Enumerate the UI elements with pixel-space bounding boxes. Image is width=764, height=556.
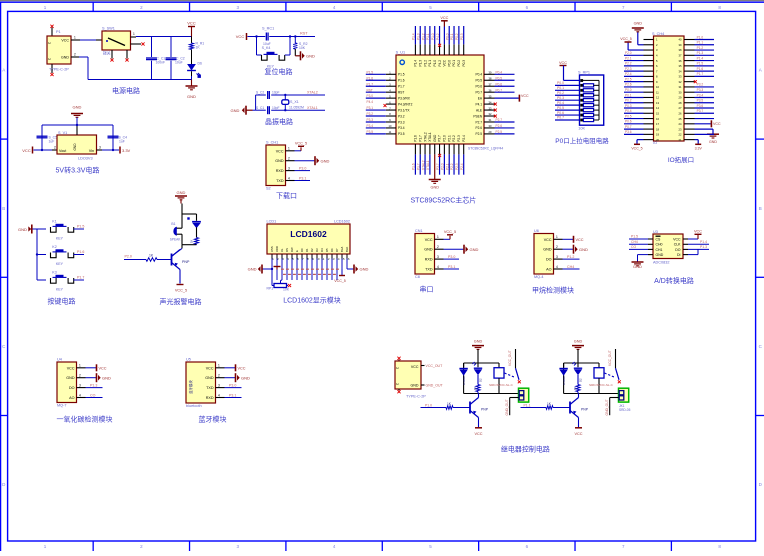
svg-text:按键电路: 按键电路 — [48, 297, 76, 306]
svg-text:XTAL2: XTAL2 — [421, 160, 425, 170]
svg-text:P1.1: P1.1 — [428, 60, 432, 67]
svg-text:RW: RW — [290, 247, 294, 252]
svg-text:P3.4: P3.4 — [367, 124, 374, 128]
svg-text:XTAL1: XTAL1 — [307, 106, 318, 110]
svg-text:P2.6: P2.6 — [496, 124, 503, 128]
svg-text:VCC: VCC — [574, 432, 582, 436]
svg-text:P3.7: P3.7 — [697, 109, 704, 113]
svg-text:拨关: 拨关 — [103, 51, 111, 56]
svg-text:继电器控制电路: 继电器控制电路 — [501, 445, 550, 454]
svg-text:P4.4: P4.4 — [367, 100, 374, 104]
svg-text:10K: 10K — [283, 288, 290, 292]
svg-text:1N4007: 1N4007 — [462, 375, 466, 385]
svg-text:P3.0: P3.0 — [299, 166, 306, 170]
svg-text:1: 1 — [556, 235, 558, 239]
svg-text:P1.4: P1.4 — [697, 56, 704, 60]
svg-text:RXD: RXD — [276, 169, 284, 173]
svg-text:S_CH4: S_CH4 — [652, 32, 664, 36]
svg-text:P1.7: P1.7 — [418, 135, 422, 142]
svg-text:VCC_OUT: VCC_OUT — [608, 350, 612, 366]
svg-text:P4.3/INT2: P4.3/INT2 — [398, 102, 413, 106]
svg-text:P0.3: P0.3 — [625, 104, 632, 108]
svg-text:33: 33 — [679, 75, 682, 79]
svg-text:100nF: 100nF — [156, 61, 166, 65]
svg-text:一氧化碳检测模块: 一氧化碳检测模块 — [57, 415, 113, 424]
svg-text:P3.3: P3.3 — [398, 120, 405, 124]
svg-text:GND: GND — [474, 339, 483, 343]
svg-text:VCC_5: VCC_5 — [334, 279, 346, 283]
svg-text:1: 1 — [437, 235, 439, 239]
svg-text:VCC: VCC — [474, 432, 482, 436]
svg-text:14: 14 — [656, 106, 659, 110]
svg-text:P4.1: P4.1 — [475, 102, 482, 106]
svg-text:3: 3 — [288, 166, 290, 170]
svg-text:1N4007: 1N4007 — [562, 375, 566, 385]
svg-text:S_SW1: S_SW1 — [102, 27, 115, 31]
svg-text:P1.2: P1.2 — [421, 33, 425, 40]
svg-text:1K: 1K — [573, 386, 577, 390]
svg-text:U4: U4 — [57, 358, 62, 362]
svg-text:P2.4: P2.4 — [460, 163, 464, 170]
svg-text:VCC: VCC — [544, 238, 552, 242]
svg-text:GND: GND — [102, 375, 111, 380]
svg-text:P2.4: P2.4 — [625, 72, 632, 76]
svg-text:GND: GND — [634, 22, 643, 26]
svg-text:P0.6: P0.6 — [496, 82, 503, 86]
svg-text:P2.0: P2.0 — [443, 135, 447, 142]
svg-text:P0.5: P0.5 — [475, 79, 482, 83]
svg-text:P1.7: P1.7 — [416, 163, 420, 170]
svg-text:VCC: VCC — [67, 366, 75, 370]
svg-text:BLK: BLK — [345, 247, 349, 252]
svg-text:4: 4 — [218, 393, 220, 397]
svg-text:P2.6: P2.6 — [475, 126, 482, 130]
svg-text:P0.7: P0.7 — [475, 90, 482, 94]
svg-text:RST: RST — [398, 90, 404, 94]
svg-text:P0.5: P0.5 — [557, 106, 564, 110]
svg-text:P3.5: P3.5 — [367, 130, 374, 134]
svg-text:P0.1: P0.1 — [452, 60, 456, 67]
svg-text:DO: DO — [546, 258, 552, 262]
svg-text:GND: GND — [424, 248, 433, 252]
svg-text:P0.6: P0.6 — [625, 120, 632, 124]
svg-text:P0.4: P0.4 — [557, 101, 564, 105]
svg-text:PNP: PNP — [581, 408, 589, 412]
svg-text:VCC: VCC — [521, 94, 529, 98]
svg-text:P2.0: P2.0 — [625, 51, 632, 55]
svg-text:蓝牙模块: 蓝牙模块 — [199, 415, 227, 424]
svg-text:串口: 串口 — [420, 285, 434, 293]
svg-text:SRD-05: SRD-05 — [619, 408, 631, 412]
svg-text:VCC: VCC — [276, 149, 284, 153]
svg-text:S_U1: S_U1 — [396, 51, 406, 55]
svg-text:3: 3 — [437, 255, 439, 259]
svg-text:GND: GND — [431, 186, 440, 190]
svg-text:AO: AO — [546, 268, 551, 272]
svg-text:D4: D4 — [320, 248, 324, 252]
svg-text:VCC_OUT: VCC_OUT — [426, 364, 444, 368]
svg-text:VSS: VSS — [270, 246, 274, 252]
svg-text:P0.7: P0.7 — [496, 88, 503, 92]
svg-text:P1.4: P1.4 — [414, 60, 418, 67]
svg-text:KEY: KEY — [267, 65, 275, 69]
svg-text:10pF: 10pF — [272, 91, 280, 95]
svg-text:KEY: KEY — [56, 237, 64, 241]
svg-text:P3.0: P3.0 — [367, 94, 374, 98]
svg-text:P1.1: P1.1 — [524, 403, 531, 407]
svg-text:GND: GND — [177, 190, 186, 195]
svg-text:LCD1602显示模块: LCD1602显示模块 — [283, 296, 341, 305]
svg-text:P2.2: P2.2 — [625, 62, 632, 66]
svg-text:P1.5: P1.5 — [697, 62, 704, 66]
svg-text:XTAL2: XTAL2 — [307, 91, 318, 95]
svg-text:23: 23 — [679, 127, 682, 131]
svg-text:P2.3: P2.3 — [457, 135, 461, 142]
svg-text:TXD: TXD — [206, 386, 214, 390]
svg-text:1: 1 — [74, 36, 76, 40]
svg-text:GND: GND — [574, 339, 583, 343]
svg-text:10pF: 10pF — [272, 106, 280, 110]
svg-text:VCC_5: VCC_5 — [175, 289, 187, 293]
svg-text:VCC: VCC — [440, 16, 448, 20]
svg-text:40: 40 — [679, 38, 682, 42]
svg-text:P3.7: P3.7 — [438, 135, 442, 142]
svg-text:P2.5: P2.5 — [625, 77, 632, 81]
svg-text:P2.1: P2.1 — [445, 163, 449, 170]
svg-text:U5: U5 — [186, 358, 191, 362]
svg-text:P1.7: P1.7 — [367, 82, 374, 86]
svg-text:XTAL2: XTAL2 — [423, 132, 427, 142]
svg-text:P0.5: P0.5 — [496, 76, 503, 80]
svg-text:RXD: RXD — [206, 396, 214, 400]
svg-text:P2.5: P2.5 — [496, 130, 503, 134]
svg-text:RS: RS — [285, 248, 289, 252]
svg-text:VCC_5: VCC_5 — [295, 141, 307, 145]
svg-text:2: 2 — [54, 146, 56, 150]
svg-text:P0.3: P0.3 — [557, 96, 564, 100]
svg-text:2: 2 — [556, 245, 558, 249]
svg-text:A: A — [759, 68, 762, 73]
svg-text:P1.5: P1.5 — [398, 73, 405, 77]
svg-text:P0.2: P0.2 — [457, 60, 461, 67]
svg-text:5V转3.3V电路: 5V转3.3V电路 — [56, 166, 100, 175]
svg-text:P2.3: P2.3 — [625, 67, 632, 71]
svg-text:P0.7: P0.7 — [557, 116, 564, 120]
svg-text:A/D转换电路: A/D转换电路 — [654, 276, 694, 285]
svg-text:VCC: VCC — [694, 230, 702, 234]
svg-text:VCC: VCC — [99, 366, 107, 370]
svg-text:VCC: VCC — [22, 148, 31, 153]
svg-text:GND_OUT: GND_OUT — [426, 384, 444, 388]
svg-text:P1.3: P1.3 — [90, 383, 97, 387]
svg-text:11.0592M: 11.0592M — [289, 105, 304, 109]
svg-text:S_CH1: S_CH1 — [266, 141, 278, 145]
svg-text:P3.1: P3.1 — [299, 176, 306, 180]
svg-text:IO: IO — [653, 141, 657, 145]
svg-text:26: 26 — [679, 111, 682, 115]
svg-text:GND: GND — [205, 376, 214, 380]
svg-text:10K: 10K — [578, 127, 585, 131]
svg-text:1: 1 — [218, 364, 220, 368]
svg-text:下载口: 下载口 — [276, 191, 297, 200]
svg-text:P1.3: P1.3 — [418, 60, 422, 67]
svg-text:GND: GND — [275, 159, 284, 163]
svg-text:VL: VL — [280, 248, 284, 252]
svg-text:2: 2 — [79, 374, 81, 378]
svg-text:P3.3: P3.3 — [697, 88, 704, 92]
svg-text:bluetooth: bluetooth — [186, 404, 202, 408]
svg-text:P1.3: P1.3 — [700, 245, 707, 249]
svg-text:P4.2: P4.2 — [438, 60, 442, 67]
svg-text:VCC_OUT: VCC_OUT — [508, 350, 512, 366]
svg-text:P3.4: P3.4 — [697, 93, 704, 97]
svg-text:K3: K3 — [52, 271, 56, 275]
svg-text:P3.2: P3.2 — [398, 114, 405, 118]
svg-text:GND: GND — [709, 140, 717, 144]
svg-text:DI: DI — [677, 253, 681, 257]
svg-text:P2.5: P2.5 — [475, 132, 482, 136]
svg-text:18: 18 — [656, 127, 659, 131]
svg-text:P0.0: P0.0 — [557, 81, 564, 85]
svg-text:GND: GND — [633, 264, 642, 269]
svg-text:1K: 1K — [196, 46, 201, 50]
svg-text:P1.6: P1.6 — [398, 79, 405, 83]
svg-text:P3.5: P3.5 — [398, 132, 405, 136]
svg-text:XTAL1: XTAL1 — [426, 160, 430, 170]
svg-text:P3.1: P3.1 — [229, 393, 236, 397]
svg-text:3.3V: 3.3V — [122, 148, 131, 153]
svg-text:MQ-7: MQ-7 — [57, 404, 67, 408]
svg-text:P1.2: P1.2 — [697, 46, 704, 50]
svg-text:VCC: VCC — [443, 59, 447, 66]
svg-text:3: 3 — [99, 146, 101, 150]
svg-text:1uF: 1uF — [49, 140, 55, 144]
svg-text:CO: CO — [90, 393, 96, 397]
svg-text:P1.5: P1.5 — [77, 225, 84, 229]
svg-text:VCC: VCC — [187, 21, 196, 26]
svg-text:B: B — [2, 206, 5, 211]
svg-text:Vout: Vout — [59, 149, 66, 153]
svg-text:VCC: VCC — [713, 122, 721, 126]
svg-text:GND: GND — [18, 227, 27, 232]
svg-text:P0.2: P0.2 — [455, 33, 459, 40]
svg-text:CH4: CH4 — [567, 265, 574, 269]
svg-text:D2: D2 — [579, 378, 583, 382]
svg-text:GND: GND — [241, 375, 250, 380]
svg-text:LCD1602: LCD1602 — [334, 220, 350, 224]
svg-text:D6: D6 — [330, 248, 334, 252]
svg-text:P0.1: P0.1 — [625, 93, 632, 97]
svg-text:D0: D0 — [300, 248, 304, 252]
svg-text:CH4: CH4 — [631, 240, 638, 244]
svg-text:S2: S2 — [266, 187, 271, 191]
svg-text:1K: 1K — [149, 254, 154, 258]
svg-text:RST: RST — [367, 88, 373, 92]
svg-text:P2.0: P2.0 — [125, 255, 132, 259]
svg-text:1: 1 — [79, 364, 81, 368]
svg-text:P0.6: P0.6 — [475, 85, 482, 89]
svg-text:P1.7: P1.7 — [398, 85, 405, 89]
svg-text:D6: D6 — [198, 62, 202, 66]
svg-text:P0.1: P0.1 — [557, 86, 564, 90]
svg-text:GND: GND — [73, 105, 82, 110]
svg-text:TXD: TXD — [276, 179, 284, 183]
svg-text:P1.1: P1.1 — [697, 41, 704, 45]
svg-text:32: 32 — [679, 80, 682, 84]
svg-text:P2.0: P2.0 — [441, 163, 445, 170]
svg-text:2: 2 — [288, 157, 290, 161]
svg-text:2: 2 — [437, 245, 439, 249]
svg-text:12: 12 — [656, 96, 659, 100]
svg-text:RP1: RP1 — [267, 287, 274, 291]
svg-text:P0口上拉电阻电路: P0口上拉电阻电路 — [555, 136, 609, 145]
svg-text:U3: U3 — [653, 230, 658, 234]
svg-text:K1: K1 — [52, 220, 56, 224]
svg-text:P0.0: P0.0 — [445, 33, 449, 40]
svg-text:VCC: VCC — [559, 61, 567, 65]
svg-text:25: 25 — [679, 117, 682, 121]
svg-text:TYPE-C-2P: TYPE-C-2P — [49, 68, 69, 72]
svg-text:27: 27 — [679, 106, 682, 110]
svg-text:S_X1: S_X1 — [290, 100, 299, 104]
svg-text:AO: AO — [69, 396, 74, 400]
svg-text:P3.0: P3.0 — [229, 383, 236, 387]
svg-text:D3: D3 — [315, 248, 319, 252]
svg-text:GND: GND — [66, 376, 75, 380]
svg-text:SRD-5VDC-SL-C: SRD-5VDC-SL-C — [589, 383, 614, 387]
svg-text:P2.1: P2.1 — [447, 135, 451, 142]
svg-text:10uF: 10uF — [175, 61, 183, 65]
svg-text:蓝牙模块: 蓝牙模块 — [188, 380, 193, 394]
svg-text:DO: DO — [69, 386, 75, 390]
svg-text:PNP: PNP — [182, 260, 190, 264]
svg-text:VCC_5: VCC_5 — [631, 146, 642, 150]
svg-text:21: 21 — [679, 138, 682, 142]
svg-text:STC89C52RC主芯片: STC89C52RC主芯片 — [411, 195, 477, 204]
svg-text:30: 30 — [679, 90, 682, 94]
svg-text:P2.2: P2.2 — [452, 135, 456, 142]
svg-text:E: E — [295, 250, 299, 252]
svg-text:4: 4 — [288, 176, 290, 180]
svg-text:GND: GND — [470, 247, 479, 252]
svg-text:S_RC1: S_RC1 — [262, 27, 274, 31]
svg-text:22: 22 — [679, 133, 682, 137]
svg-text:CO: CO — [631, 245, 636, 249]
svg-text:P1.0: P1.0 — [425, 403, 432, 407]
svg-text:10: 10 — [656, 85, 659, 89]
svg-text:P0.3: P0.3 — [462, 60, 466, 67]
svg-text:S_K4: S_K4 — [262, 46, 271, 50]
svg-text:38: 38 — [679, 48, 682, 52]
svg-text:VCC_5: VCC_5 — [620, 37, 632, 41]
svg-text:GND: GND — [433, 134, 437, 142]
svg-text:P2.2: P2.2 — [450, 163, 454, 170]
svg-text:K2: K2 — [52, 245, 56, 249]
svg-text:VCC: VCC — [576, 238, 584, 242]
svg-text:B: B — [759, 206, 762, 211]
svg-text:28: 28 — [679, 101, 682, 105]
svg-text:P2.6: P2.6 — [625, 83, 632, 87]
svg-text:1K: 1K — [190, 239, 194, 243]
svg-text:4: 4 — [437, 265, 439, 269]
svg-text:3: 3 — [79, 383, 81, 387]
svg-text:PNP: PNP — [481, 408, 489, 412]
svg-text:D2: D2 — [479, 378, 483, 382]
svg-text:GND: GND — [231, 108, 240, 113]
svg-text:1: 1 — [133, 32, 135, 36]
svg-text:P2.7: P2.7 — [496, 118, 503, 122]
svg-text:LDO3V3: LDO3V3 — [78, 157, 93, 161]
svg-text:34: 34 — [679, 69, 682, 73]
svg-text:LCD1602: LCD1602 — [290, 229, 327, 239]
svg-text:P1.7: P1.7 — [77, 276, 84, 280]
svg-text:P1.5: P1.5 — [367, 70, 374, 74]
svg-text:P1.2: P1.2 — [423, 60, 427, 67]
svg-text:24: 24 — [679, 122, 682, 126]
svg-text:P3.0/RX: P3.0/RX — [398, 96, 411, 100]
svg-text:C8: C8 — [415, 275, 420, 279]
svg-text:35: 35 — [679, 64, 682, 68]
svg-text:PSEN: PSEN — [473, 114, 482, 118]
svg-text:复位电路: 复位电路 — [265, 67, 293, 76]
svg-text:P3.1: P3.1 — [367, 106, 374, 110]
svg-text:D7: D7 — [335, 248, 339, 252]
svg-text:P0.4: P0.4 — [625, 109, 632, 113]
svg-text:IO拓展口: IO拓展口 — [668, 155, 694, 164]
svg-text:CH1: CH1 — [656, 248, 663, 252]
svg-text:P1.6: P1.6 — [697, 67, 704, 71]
svg-text:P0.0: P0.0 — [447, 60, 451, 67]
svg-text:STC89C52RC_LQFP44: STC89C52RC_LQFP44 — [468, 147, 503, 151]
svg-text:P3.7: P3.7 — [436, 163, 440, 170]
svg-text:3: 3 — [218, 383, 220, 387]
svg-text:A: A — [2, 68, 5, 73]
svg-text:CN1: CN1 — [415, 229, 423, 233]
svg-text:VCC: VCC — [236, 34, 245, 39]
svg-text:P3.1/TX: P3.1/TX — [398, 108, 410, 112]
svg-text:29: 29 — [679, 96, 682, 100]
svg-text:D2: D2 — [310, 248, 314, 252]
svg-text:VCC: VCC — [673, 237, 681, 241]
svg-text:KEY: KEY — [56, 288, 64, 292]
svg-text:P0.2: P0.2 — [625, 99, 632, 103]
svg-text:SRD-5VDC-SL-C: SRD-5VDC-SL-C — [489, 383, 514, 387]
svg-text:P0.3: P0.3 — [460, 33, 464, 40]
svg-text:P1.4: P1.4 — [700, 240, 707, 244]
svg-text:37: 37 — [679, 54, 682, 58]
svg-text:P0.7: P0.7 — [625, 125, 632, 129]
svg-text:D1: D1 — [305, 248, 309, 252]
svg-text:CS: CS — [656, 237, 662, 241]
svg-text:P3.2: P3.2 — [697, 83, 704, 87]
svg-text:P3.1: P3.1 — [448, 265, 455, 269]
svg-text:ALE: ALE — [476, 108, 482, 112]
svg-text:CLK: CLK — [674, 243, 681, 247]
svg-text:SPEAK: SPEAK — [170, 238, 182, 242]
svg-text:P0.6: P0.6 — [557, 111, 564, 115]
svg-text:GND: GND — [248, 267, 257, 272]
svg-text:GND: GND — [61, 56, 69, 60]
svg-text:TXD: TXD — [425, 268, 433, 272]
svg-text:P1: P1 — [56, 30, 61, 34]
svg-text:1uF: 1uF — [119, 140, 125, 144]
svg-text:3.3V: 3.3V — [695, 146, 703, 150]
svg-text:P1.0: P1.0 — [431, 33, 435, 40]
svg-text:VCC: VCC — [206, 366, 214, 370]
svg-text:P1.6: P1.6 — [77, 250, 84, 254]
svg-text:D5: D5 — [325, 248, 329, 252]
svg-text:GND: GND — [321, 158, 330, 163]
